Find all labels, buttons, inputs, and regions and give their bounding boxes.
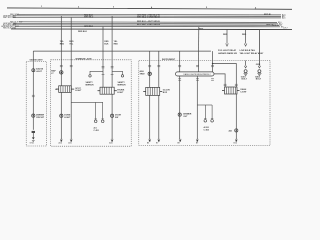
- node pill lower ticks: [178, 78, 181, 80]
- wire V9 ground wire from C1 at x259.4: [258, 30, 260, 66]
- wire below pill left: [179, 76, 181, 139]
- wire bulb3 right lead below: [158, 95, 160, 139]
- svg-text:WHT BLU x GRN RED B: WHT BLU x GRN RED B: [137, 17, 160, 19]
- node terminal bulb3 right: [156, 139, 160, 144]
- svg-text:GRN 14: GRN 14: [266, 23, 274, 26]
- wire pin drop at 205.3: [204, 105, 206, 119]
- node terminal bulb4: [234, 139, 238, 144]
- wire vertical V2 from bus A3: [70, 17, 72, 92]
- wire bulb4 lead below: [235, 94, 237, 139]
- svg-text:C 451: C 451: [94, 129, 100, 132]
- wire bulb1 right lead below with branch: [70, 93, 72, 140]
- wire top main bus: [7, 8, 292, 9]
- wire bus B4: [15, 25, 280, 28]
- wire V6 from bus B4 to pill: [197, 27, 199, 72]
- box1 gauge assembly dashed box: [26, 62, 46, 147]
- wire bus A1: [17, 13, 281, 16]
- node V7 arrowhead: [226, 44, 229, 47]
- node V1 dark connector: [60, 71, 63, 74]
- svg-text:B9: B9: [196, 143, 198, 145]
- node terminal bulb3 left: [147, 139, 151, 144]
- svg-text:B10: B10: [234, 143, 237, 145]
- node box2 pin tick V3: [102, 66, 105, 68]
- node pin circle at 205.3: [204, 118, 206, 120]
- wire right elbow of y51 down to pill: [212, 51, 214, 72]
- wire pigtail P2: [112, 71, 122, 74]
- svg-text:LIGHT: LIGHT: [36, 71, 43, 73]
- svg-text:TRAY: TRAY: [140, 72, 146, 75]
- svg-text:RED BLK GRN: RED BLK GRN: [3, 28, 16, 30]
- wire left elbow drop into box1: [32, 51, 34, 69]
- lamp bulb2: [98, 87, 117, 94]
- wire bus B1: [19, 21, 277, 24]
- wire bulb3 left lead below: [149, 95, 151, 139]
- svg-text:BLK: BLK: [104, 44, 109, 46]
- node bulb3 connector: [148, 72, 151, 75]
- svg-text:C717: C717: [283, 28, 288, 30]
- svg-text:BOLT: BOLT: [242, 79, 248, 81]
- svg-text:GAUGE ASSY: GAUGE ASSY: [30, 58, 44, 61]
- svg-text:LIGHT: LIGHT: [241, 92, 248, 94]
- wire bus B3: [13, 24, 279, 27]
- svg-text:INTERIOR LIGHT: INTERIOR LIGHT: [76, 58, 93, 60]
- node box1 lower connector: [32, 114, 35, 117]
- wire pill right exit to bulb4 left lead: [214, 74, 225, 87]
- wire branch y102.4 to bulb2 left lead: [71, 101, 103, 103]
- svg-text:A16: A16: [109, 142, 112, 145]
- box3 instrument dashed box: [139, 61, 270, 146]
- wire drop to bulb3 right at x158.8: [158, 51, 160, 87]
- node terminal V1: [59, 139, 63, 144]
- svg-text:GRN BLK: GRN BLK: [84, 26, 94, 28]
- wire V8 to-arrow from C1 at x245.6: [245, 30, 247, 44]
- wire pin drop at 102.7: [102, 102, 104, 119]
- node pin circle at 95.7: [95, 118, 97, 120]
- svg-text:GRN: GRN: [256, 64, 261, 66]
- wire pin drop at 212.1: [211, 105, 213, 119]
- node box1 pin ticks: [32, 94, 35, 96]
- node box2 pin tick V1: [60, 64, 63, 66]
- lamp small component in box1: [32, 131, 35, 133]
- node terminal bulb2: [109, 139, 113, 144]
- node pin circle at 102.7: [102, 118, 104, 120]
- lamp bulb4: [222, 87, 240, 94]
- node P1 terminal circle: [89, 75, 91, 77]
- svg-text:CIRCUIT: CIRCUIT: [36, 117, 45, 119]
- node bulb2 lower connector: [111, 114, 114, 117]
- lamp bulb3: [143, 87, 162, 95]
- wire bus B2: [13, 22, 278, 25]
- svg-text:BOLT: BOLT: [256, 79, 262, 81]
- svg-text:LOW BULB TAIL: LOW BULB TAIL: [240, 49, 256, 52]
- wire drop to bulb3 left at x149.7: [149, 51, 151, 87]
- wire V7 to-arrow from C1 at x227: [226, 30, 228, 44]
- svg-text:MIRROR: MIRROR: [86, 85, 95, 87]
- box2 interior lights dashed box: [51, 60, 132, 146]
- lamp bulb1: [56, 86, 74, 93]
- svg-text:RED BLK: RED BLK: [78, 31, 87, 33]
- node V8 arrowhead: [244, 44, 247, 47]
- ground in box1: [32, 137, 35, 139]
- svg-text:B6: B6: [147, 143, 149, 145]
- svg-text:INSTRUMENT: INSTRUMENT: [162, 59, 176, 61]
- svg-text:A15: A15: [68, 142, 71, 145]
- node V4 mid ticks: [111, 73, 114, 75]
- wire bulb1 left lead below: [60, 92, 62, 139]
- wire bus C1: [11, 28, 292, 31]
- svg-text:RED: RED: [114, 44, 119, 46]
- wire V4 from bus A2 at x112: [111, 16, 113, 87]
- node V3 mid ticks: [102, 73, 105, 75]
- svg-text:LIGHT: LIGHT: [117, 92, 124, 94]
- wire horizontal distribution wire y51: [33, 50, 211, 52]
- svg-text:MIRROR: MIRROR: [118, 85, 127, 87]
- svg-text:G741: G741: [30, 142, 35, 144]
- svg-text:B8: B8: [177, 143, 179, 145]
- wire bulb2 right lead below: [111, 94, 113, 139]
- wire below pill mid with branch: [196, 76, 198, 139]
- op pill dash brightness controller: [176, 72, 215, 76]
- svg-text:DASH LIGHTS BRIGHTNESS C: DASH LIGHTS BRIGHTNESS C: [184, 73, 212, 76]
- node box3 pin ticks: [148, 64, 151, 66]
- svg-text:WHT BLU RED: WHT BLU RED: [3, 17, 17, 19]
- svg-text:LIGHT: LIGHT: [75, 90, 82, 92]
- wire pin drop at 95.7: [95, 102, 97, 119]
- node pill lower connector: [178, 113, 181, 116]
- svg-text:A16: A16: [282, 17, 285, 20]
- node box1 upper connector: [32, 69, 35, 72]
- wire bus A2: [13, 15, 281, 18]
- ground bolt G2 at 259.4: [255, 66, 262, 81]
- svg-text:WHT BLU: WHT BLU: [84, 17, 94, 19]
- svg-text:BLU WHT x RED GRN W: BLU WHT x RED GRN W: [137, 24, 160, 26]
- wire box1 interior wire: [32, 69, 34, 130]
- node junction dot at 210.9,63.5: [212, 63, 214, 65]
- wire branch y63.5 to bulb4 right lead: [213, 64, 237, 88]
- svg-text:RED: RED: [60, 44, 65, 46]
- svg-text:RED BL: RED BL: [264, 14, 272, 16]
- svg-text:C 452: C 452: [204, 128, 210, 131]
- node terminal pill left: [177, 139, 181, 144]
- svg-text:RED: RED: [242, 34, 247, 36]
- wire branch y105 to pin circles: [197, 104, 212, 106]
- node box2 pin tick V4: [111, 66, 114, 68]
- node P2 terminal circle: [121, 75, 123, 77]
- wire pigtail P1: [90, 71, 103, 74]
- svg-text:LIGHT: LIGHT: [64, 117, 71, 119]
- svg-text:HAZARD WARN SW: HAZARD WARN SW: [218, 52, 237, 55]
- wire bus A3: [13, 16, 281, 19]
- svg-text:B7: B7: [156, 143, 158, 145]
- ground bolt G1 at 245.6: [241, 61, 248, 81]
- svg-text:FOG LIGHT RELAY: FOG LIGHT RELAY: [218, 49, 237, 52]
- node pin circle at 212.1: [211, 118, 213, 120]
- node V1 lower connector: [60, 114, 63, 117]
- svg-text:BOX: BOX: [163, 92, 168, 94]
- node terminal pill mid: [196, 139, 199, 144]
- wire drop to pill at x178.8: [179, 51, 181, 72]
- svg-text:RED: RED: [199, 28, 204, 30]
- node terminal V2: [68, 139, 72, 144]
- svg-text:SW: SW: [115, 117, 118, 119]
- svg-text:RED: RED: [223, 34, 228, 36]
- node box2 pin tick V2: [70, 64, 73, 66]
- wire below box1 lamp: [32, 133, 34, 137]
- node bulb4 pin ticks: [224, 83, 227, 85]
- wire vertical V1 from bus A2 to gauge feed: [60, 16, 62, 86]
- svg-text:A14: A14: [59, 142, 62, 145]
- svg-text:TAIL LIGHT RELAY ASSY: TAIL LIGHT RELAY ASSY: [240, 52, 265, 55]
- wire V3 from bus B4 at x103: [102, 27, 104, 88]
- svg-text:RED BLK x WHT GRN B: RED BLK x WHT GRN B: [137, 21, 160, 23]
